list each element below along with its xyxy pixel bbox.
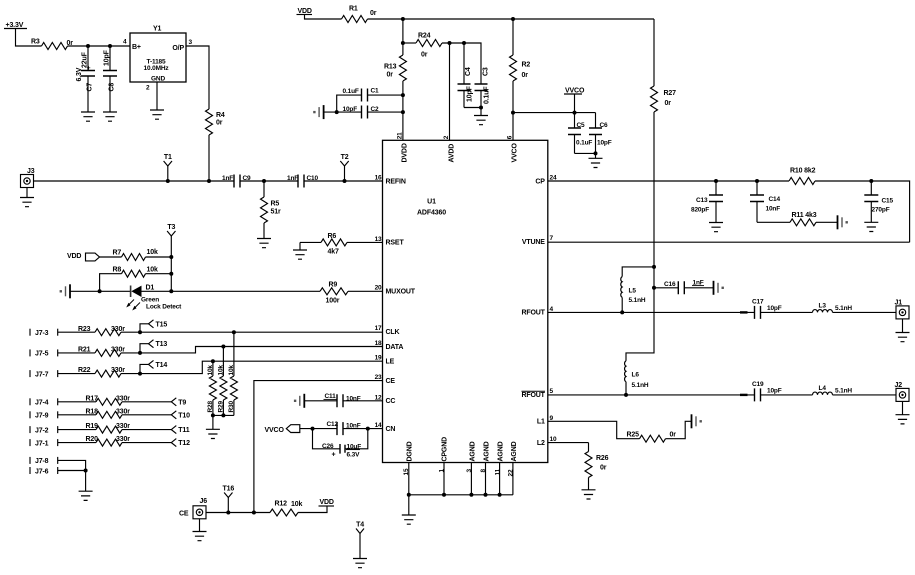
svg-text:J6: J6 bbox=[200, 498, 208, 505]
svg-text:AVDD: AVDD bbox=[449, 144, 456, 163]
testpoint T10 bbox=[171, 411, 176, 419]
svg-text:J7-7: J7-7 bbox=[35, 371, 49, 378]
svg-text:R24: R24 bbox=[418, 33, 431, 40]
wire R2 to VVCO pin6 bbox=[512, 81, 514, 140]
svg-text:J7-8: J7-8 bbox=[35, 458, 49, 465]
wire +3.3V to R3 bbox=[16, 29, 42, 47]
svg-text:10k: 10k bbox=[147, 267, 158, 274]
svg-text:5.1nH: 5.1nH bbox=[835, 388, 852, 395]
wire R17 to T9 bbox=[122, 401, 171, 403]
resistor R12 10k bbox=[270, 509, 298, 516]
svg-text:L6: L6 bbox=[632, 371, 640, 378]
junction AVDD column bbox=[448, 41, 452, 45]
svg-text:L2: L2 bbox=[537, 440, 545, 447]
wire R3 to Y1 pin4 bbox=[68, 45, 131, 47]
svg-text:0r: 0r bbox=[522, 72, 529, 79]
junction L5 top bbox=[652, 265, 656, 269]
wire DVDD column upper bbox=[402, 19, 404, 55]
svg-text:R10 8k2: R10 8k2 bbox=[790, 167, 816, 174]
svg-text:C6: C6 bbox=[600, 122, 609, 129]
resistor R26 0r bbox=[588, 443, 590, 452]
junction C7 bbox=[86, 44, 90, 48]
svg-text:U1: U1 bbox=[427, 199, 436, 206]
svg-text:VDD: VDD bbox=[67, 253, 81, 260]
svg-text:J7-5: J7-5 bbox=[35, 351, 49, 358]
connector J7-5 bbox=[29, 349, 31, 356]
junction C6 ground bbox=[594, 151, 598, 155]
svg-text:T12: T12 bbox=[178, 440, 190, 447]
resistor R6 4k7 bbox=[321, 239, 347, 246]
wire AGND pin11 bbox=[499, 463, 501, 495]
svg-text:16: 16 bbox=[375, 175, 382, 182]
wire R19 to T11 bbox=[122, 429, 171, 431]
svg-text:6.3V: 6.3V bbox=[76, 67, 83, 81]
svg-text:Lock Detect: Lock Detect bbox=[146, 303, 182, 310]
testpoint T15 bbox=[140, 324, 149, 332]
svg-text:10k: 10k bbox=[218, 365, 225, 376]
resistor R30 10k bbox=[233, 332, 235, 376]
svg-text:4: 4 bbox=[123, 39, 127, 46]
wire CE pin23 loop bbox=[254, 381, 383, 513]
wire elbow up to C1 bbox=[337, 95, 362, 112]
inductor L4 5.1nH bbox=[813, 392, 833, 395]
inductor L6 5.1nH bbox=[625, 361, 626, 382]
junction C4 column bbox=[462, 41, 466, 45]
svg-text:C3: C3 bbox=[483, 67, 490, 76]
junction R29 bottom bbox=[221, 413, 225, 417]
svg-text:C26: C26 bbox=[322, 443, 334, 450]
LED arrows bbox=[128, 300, 135, 307]
svg-text:C7: C7 bbox=[87, 83, 94, 92]
resistor R2 0r bbox=[512, 19, 514, 55]
svg-text:LE: LE bbox=[386, 359, 395, 366]
wire R12 to VDD bbox=[298, 506, 327, 513]
connector J3 bbox=[21, 175, 34, 188]
wire R8 to T3 column bbox=[146, 273, 172, 275]
svg-text:R21: R21 bbox=[78, 347, 91, 354]
svg-text:C19: C19 bbox=[752, 381, 764, 388]
connector J7-2 bbox=[29, 426, 31, 433]
svg-text:R4: R4 bbox=[216, 112, 225, 119]
capacitor C16 1nF bbox=[678, 281, 684, 294]
svg-text:R17: R17 bbox=[86, 395, 99, 402]
connector J7-7 bbox=[29, 370, 31, 377]
wire C17 to L3 bbox=[761, 311, 813, 313]
svg-text:51r: 51r bbox=[271, 209, 281, 216]
wire R21 to DATA pin18 bbox=[121, 347, 383, 353]
svg-text:T2: T2 bbox=[341, 154, 349, 161]
svg-text:VDD: VDD bbox=[320, 499, 334, 506]
testpoint T1 bbox=[167, 166, 169, 181]
junction R30 top bbox=[232, 330, 236, 334]
wire L3 to J1 bbox=[833, 311, 897, 313]
capacitor C17 10pF bbox=[755, 306, 761, 319]
capacitor C10 1nF bbox=[298, 175, 304, 188]
wire R11 to pad bbox=[816, 221, 838, 223]
capacitor C4 10pF bbox=[463, 43, 465, 108]
capacitor C8 10pF bbox=[109, 46, 111, 112]
ferrite dash RFOUT5 bbox=[740, 394, 748, 396]
svg-text:O/P: O/P bbox=[172, 45, 184, 52]
op-amp U1 ADF4360 body bbox=[383, 140, 548, 462]
ground C13 bbox=[709, 223, 723, 232]
resistor R22 330r bbox=[95, 370, 121, 377]
svg-text:1: 1 bbox=[439, 469, 446, 473]
wire C10 to REFIN pin16 bbox=[304, 180, 383, 182]
svg-text:J7-1: J7-1 bbox=[35, 440, 49, 447]
junction C1 row bbox=[401, 93, 405, 97]
svg-text:3: 3 bbox=[189, 39, 193, 46]
svg-text:R5: R5 bbox=[271, 201, 280, 208]
wire J7-8 to ground bbox=[58, 460, 86, 470]
junction R24 bbox=[401, 41, 405, 45]
svg-text:5.1nH: 5.1nH bbox=[632, 382, 649, 389]
svg-text:0r: 0r bbox=[387, 72, 394, 79]
junction T2 bbox=[343, 179, 347, 183]
svg-text:VTUNE: VTUNE bbox=[522, 239, 545, 246]
svg-text:R20: R20 bbox=[86, 436, 99, 443]
svg-text:R12: R12 bbox=[275, 501, 288, 508]
svg-text:Y1: Y1 bbox=[153, 26, 162, 33]
ground C3 C4 bbox=[480, 108, 482, 116]
connector J7-3 bbox=[29, 329, 31, 336]
resistor R9 100r bbox=[320, 288, 348, 295]
svg-text:DVDD: DVDD bbox=[401, 143, 408, 162]
svg-text:270pF: 270pF bbox=[872, 207, 890, 214]
svg-text:R25: R25 bbox=[627, 431, 640, 438]
svg-text:C1: C1 bbox=[371, 88, 380, 95]
pad connector lock detect bbox=[69, 284, 71, 298]
wire AGND pin8 bbox=[485, 463, 487, 495]
connector J7-8 bbox=[29, 457, 31, 464]
wire L2 pin10 to R26 bbox=[548, 442, 589, 444]
svg-text:MUXOUT: MUXOUT bbox=[386, 288, 416, 295]
resistor R28 10k bbox=[212, 361, 214, 376]
pad connector R25 bbox=[691, 414, 693, 428]
junction R8 T3 bbox=[169, 272, 173, 276]
LED D1 Green Lock Detect bbox=[130, 286, 132, 298]
ground J7-8 J7-6 bbox=[85, 471, 87, 492]
svg-text:C14: C14 bbox=[769, 196, 781, 203]
wire R6 to RSET pin13 bbox=[347, 241, 383, 243]
testpoint T11 bbox=[171, 426, 176, 434]
wire C14 to R11 bbox=[757, 221, 790, 223]
junction CE column bbox=[252, 511, 256, 515]
svg-text:0r: 0r bbox=[216, 120, 223, 127]
svg-text:AGND: AGND bbox=[511, 441, 518, 461]
svg-text:R8: R8 bbox=[113, 267, 122, 274]
resistor R24 0r bbox=[416, 40, 442, 47]
ferrite dash RFOUT4 bbox=[740, 311, 748, 313]
svg-text:0r: 0r bbox=[600, 465, 607, 472]
svg-text:R13: R13 bbox=[384, 64, 397, 71]
svg-text:AGND: AGND bbox=[498, 441, 505, 461]
svg-text:CLK: CLK bbox=[386, 329, 400, 336]
svg-text:20: 20 bbox=[375, 285, 382, 292]
svg-text:5.1nH: 5.1nH bbox=[629, 297, 646, 304]
wire ground bus bbox=[409, 494, 513, 496]
svg-text:0r: 0r bbox=[670, 431, 677, 438]
wire C19 to L4 bbox=[761, 394, 813, 396]
wire T3 column bbox=[170, 236, 172, 291]
resistor R23 330r bbox=[95, 329, 121, 336]
wire R10 to C15 and loop right edge bbox=[815, 181, 910, 242]
junction C1 elbow bbox=[335, 110, 339, 114]
resistor R10 8k2 bbox=[789, 178, 815, 185]
resistor R29 10k bbox=[222, 347, 224, 377]
wire J7-6 to ground bbox=[58, 470, 86, 472]
svg-text:10pF: 10pF bbox=[767, 388, 782, 395]
svg-text:CE: CE bbox=[179, 510, 189, 517]
svg-text:22: 22 bbox=[508, 469, 515, 476]
wire VDD flag to R7 bbox=[100, 256, 122, 258]
wire C16 to pad bbox=[684, 287, 713, 289]
resistor R4 0r bbox=[206, 109, 213, 135]
wire R1 across top bbox=[368, 18, 655, 20]
svg-text:R19: R19 bbox=[86, 423, 99, 430]
capacitor C7 22uF 6.3V bbox=[87, 46, 89, 112]
wire choke column to C16 bbox=[653, 267, 655, 288]
wire J7-3 to R23 bbox=[58, 331, 95, 333]
wire AGND pin3 bbox=[470, 463, 472, 495]
svg-text:J1: J1 bbox=[895, 299, 903, 306]
connector J2 bbox=[896, 388, 909, 401]
resistor R17 330r bbox=[96, 398, 122, 405]
svg-text:C13: C13 bbox=[696, 197, 708, 204]
resistor R20 330r bbox=[96, 439, 122, 446]
testpoint T13 bbox=[140, 344, 149, 353]
junction C26 left bbox=[311, 427, 315, 431]
junction R5 bbox=[262, 179, 266, 183]
wire J7-2 to R19 bbox=[58, 429, 96, 431]
svg-text:C15: C15 bbox=[882, 197, 894, 204]
wire C5 bottom bbox=[575, 152, 596, 154]
junction C15 bbox=[869, 179, 873, 183]
ground Y1 pin2 bbox=[150, 110, 164, 119]
svg-text:10pF: 10pF bbox=[343, 106, 358, 113]
testpoint T3 bbox=[167, 231, 175, 236]
pin 2 stub and label bbox=[156, 82, 158, 110]
svg-text:R7: R7 bbox=[113, 250, 122, 257]
junction T14 bbox=[138, 372, 142, 376]
svg-text:R1: R1 bbox=[349, 6, 358, 13]
wire J7-1 to R20 bbox=[58, 442, 96, 444]
svg-text:17: 17 bbox=[375, 325, 382, 332]
svg-text:J3: J3 bbox=[27, 168, 35, 175]
inductor L5 5.1nH bbox=[622, 267, 654, 277]
svg-text:+: + bbox=[332, 452, 336, 459]
svg-text:3: 3 bbox=[466, 469, 473, 473]
wire J7-4 to R17 bbox=[58, 401, 96, 403]
capacitor C5 0.1uF bbox=[574, 113, 576, 154]
svg-text:820pF: 820pF bbox=[691, 206, 709, 213]
svg-text:R23: R23 bbox=[78, 326, 91, 333]
svg-text:B+: B+ bbox=[132, 44, 141, 51]
svg-text:CC: CC bbox=[386, 398, 396, 405]
pad connector R11 bbox=[837, 215, 839, 229]
wire C4 bottom to C3 bottom bbox=[464, 107, 481, 109]
wire DGND pin15 bbox=[408, 463, 410, 495]
wire CP to loop filter bbox=[548, 180, 789, 182]
ground C15 bbox=[864, 222, 878, 231]
resistor R27 0r bbox=[653, 19, 655, 86]
junction J7 ground bbox=[84, 469, 88, 473]
svg-text:R9: R9 bbox=[329, 281, 338, 288]
junction C14 bbox=[755, 179, 759, 183]
resistor R13 0r bbox=[399, 55, 406, 81]
ground J1 bbox=[902, 319, 904, 333]
svg-text:J7-6: J7-6 bbox=[35, 468, 49, 475]
ground R5 bbox=[257, 239, 271, 248]
svg-text:VVCO: VVCO bbox=[265, 427, 285, 434]
capacitor C26 10uF 6.3V bbox=[313, 429, 341, 449]
svg-text:10.0MHz: 10.0MHz bbox=[144, 65, 170, 72]
wire C2 to DVDD column bbox=[368, 111, 403, 113]
resistor R1 0r bbox=[342, 16, 368, 23]
junction C26 right bbox=[366, 427, 370, 431]
svg-text:J2: J2 bbox=[895, 382, 903, 389]
testpoint T14 bbox=[140, 364, 149, 373]
svg-text:22uF: 22uF bbox=[82, 51, 89, 68]
wire VVCO rail bbox=[513, 112, 596, 114]
wire pad to C2 bbox=[324, 111, 362, 113]
svg-text:R3: R3 bbox=[31, 39, 40, 46]
wire R23 to CLK pin17 bbox=[121, 331, 383, 333]
junction R28 bottom bbox=[211, 413, 215, 417]
svg-text:0.1uF: 0.1uF bbox=[576, 140, 592, 147]
junction C5 bbox=[573, 111, 577, 115]
svg-text:C4: C4 bbox=[465, 67, 472, 76]
junction L5 RFOUT bbox=[620, 310, 624, 314]
wire T4 to ground bbox=[359, 534, 361, 559]
ground C8 bbox=[103, 112, 117, 121]
resistor R3 bbox=[42, 43, 68, 50]
svg-text:J7-4: J7-4 bbox=[35, 400, 49, 407]
svg-text:T1: T1 bbox=[164, 154, 172, 161]
svg-text:VVCO: VVCO bbox=[512, 143, 519, 163]
svg-text:D1: D1 bbox=[146, 285, 155, 292]
svg-text:T14: T14 bbox=[156, 362, 168, 369]
wire C9 to C10 bbox=[240, 180, 298, 182]
svg-text:L5: L5 bbox=[629, 288, 637, 295]
svg-text:RFOUT: RFOUT bbox=[521, 392, 545, 399]
wire R13 to DVDD pin21 bbox=[402, 81, 404, 140]
svg-text:R26: R26 bbox=[596, 455, 609, 462]
pad connector C11 bbox=[303, 394, 305, 408]
svg-text:10k: 10k bbox=[147, 249, 158, 256]
svg-text:T15: T15 bbox=[156, 321, 168, 328]
svg-text:ADF4360: ADF4360 bbox=[417, 210, 446, 217]
svg-text:10pF: 10pF bbox=[767, 305, 782, 312]
junction R4 bbox=[207, 179, 211, 183]
svg-text:C17: C17 bbox=[752, 298, 764, 305]
wire flag to C12 bbox=[300, 428, 337, 430]
svg-text:T16: T16 bbox=[222, 486, 234, 493]
wire AVDD pin2 column bbox=[449, 43, 451, 140]
wire pad to LED bbox=[70, 290, 131, 292]
ground R6 bbox=[299, 242, 301, 250]
junction T1 bbox=[166, 179, 170, 183]
resistor R21 330r bbox=[95, 349, 121, 356]
ground IC bbox=[408, 495, 410, 515]
ground J3 bbox=[26, 188, 28, 198]
svg-text:2: 2 bbox=[146, 85, 150, 92]
svg-text:C8: C8 bbox=[109, 83, 116, 92]
wire J7-5 to R21 bbox=[58, 352, 95, 354]
capacitor C13 820pF bbox=[715, 181, 717, 223]
connector J7-9 bbox=[29, 411, 31, 418]
svg-text:RFOUT: RFOUT bbox=[521, 310, 545, 317]
capacitor C11 10nF bbox=[337, 394, 343, 407]
wire L4 to J2 bbox=[833, 394, 897, 396]
svg-text:10pF: 10pF bbox=[597, 140, 612, 147]
svg-text:L1: L1 bbox=[537, 419, 545, 426]
capacitor C2 10pF bbox=[362, 106, 368, 119]
wire R22 to LE pin19 bbox=[121, 361, 383, 373]
pad connector C16 bbox=[713, 281, 715, 295]
svg-text:6.3V: 6.3V bbox=[347, 451, 361, 458]
wire LED to R9 bbox=[142, 290, 321, 292]
wire R8 left elbow to LED row bbox=[100, 274, 122, 292]
wire C11 to CC pin12 bbox=[343, 400, 383, 402]
wire L1 pin9 to R25 bbox=[548, 421, 640, 438]
wire R24 junction to C3 bbox=[403, 42, 416, 44]
svg-text:T9: T9 bbox=[178, 399, 186, 406]
junction T15 bbox=[138, 330, 142, 334]
svg-text:T13: T13 bbox=[156, 341, 168, 348]
ground J2 bbox=[902, 401, 904, 414]
svg-text:10k: 10k bbox=[291, 501, 302, 508]
svg-text:10pF: 10pF bbox=[467, 85, 474, 102]
svg-text:10nF: 10nF bbox=[766, 205, 781, 212]
svg-text:GND: GND bbox=[151, 76, 165, 83]
svg-text:J7-3: J7-3 bbox=[35, 330, 49, 337]
svg-text:J7-2: J7-2 bbox=[35, 427, 49, 434]
svg-text:CE: CE bbox=[386, 378, 396, 385]
junction R2 column bbox=[511, 17, 515, 21]
resistor R11 4k3 bbox=[790, 219, 816, 226]
connector J7-1 bbox=[29, 439, 31, 446]
svg-text:L4: L4 bbox=[819, 385, 827, 392]
wire J3 to C9 bbox=[34, 180, 235, 182]
svg-text:11: 11 bbox=[494, 468, 501, 475]
svg-text:DATA: DATA bbox=[386, 344, 404, 351]
svg-text:10k: 10k bbox=[228, 365, 235, 376]
svg-text:CP: CP bbox=[535, 178, 545, 185]
resistor R19 330r bbox=[96, 426, 122, 433]
ground R26 bbox=[588, 478, 590, 490]
wire J7-9 to R18 bbox=[58, 414, 96, 416]
junction LED T3 bbox=[169, 289, 173, 293]
ground R28 R29 R30 bbox=[212, 415, 214, 429]
wire RFOUT pin4 row bbox=[548, 311, 755, 313]
svg-text:0.1uF: 0.1uF bbox=[484, 86, 491, 104]
capacitor C15 270pF bbox=[870, 181, 872, 222]
junction R8 LED row bbox=[98, 289, 102, 293]
junction T16 bbox=[226, 511, 230, 515]
testpoint T16 bbox=[227, 498, 229, 513]
svg-text:RSET: RSET bbox=[386, 240, 405, 247]
svg-text:CPGND: CPGND bbox=[442, 437, 449, 462]
junction R7 T3 bbox=[169, 255, 173, 259]
wire CPGND pin1 bbox=[443, 463, 445, 495]
capacitor C1 0.1uF bbox=[362, 89, 368, 102]
ground C7 bbox=[81, 112, 95, 121]
wire R18 to T10 bbox=[122, 414, 171, 416]
resistor R25 0r bbox=[640, 435, 666, 442]
capacitor C9 1nF bbox=[234, 175, 240, 188]
junction C3 C4 ground bbox=[479, 106, 483, 110]
